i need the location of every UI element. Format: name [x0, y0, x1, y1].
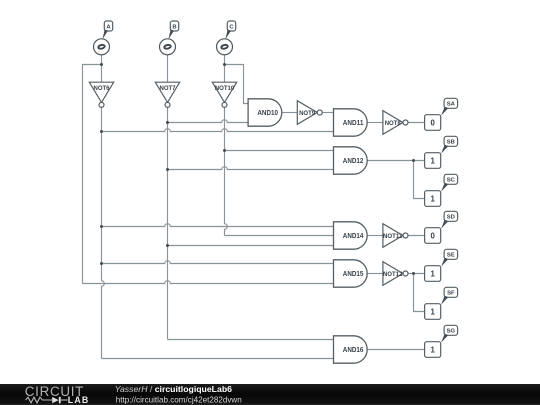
wire NOT9 output to AND11 input 1 — [322, 112, 333, 114]
svg-text:SF: SF — [447, 291, 455, 297]
svg-text:http://circuitlab.com/cj42et28: http://circuitlab.com/cj42et282dvwn — [116, 396, 242, 405]
svg-text:NOT9: NOT9 — [299, 110, 315, 117]
svg-text:1: 1 — [430, 307, 435, 316]
svg-text:C: C — [229, 24, 234, 30]
and-gate AND11 — [334, 109, 368, 136]
and-gate AND15 — [334, 260, 368, 287]
and-gate AND16 — [334, 336, 368, 363]
junction NOT10 / AND12 — [223, 149, 226, 152]
and-gate AND12 — [334, 147, 368, 174]
svg-text:AND15: AND15 — [343, 269, 364, 278]
junction NOT7 / AND12 — [166, 168, 169, 171]
indicator SA — [425, 115, 441, 131]
wire NOT10 column to AND14 input 2 — [225, 235, 334, 237]
indicator SB — [425, 153, 441, 169]
svg-text:AND11: AND11 — [343, 118, 364, 127]
wire NOT6 output column — [102, 107, 105, 358]
inverter NOT7 — [155, 82, 179, 102]
input source C — [217, 39, 233, 55]
svg-text:1: 1 — [430, 269, 435, 278]
indicator SG — [425, 342, 441, 358]
wire NOT10 to AND12 input 1 — [225, 150, 334, 152]
svg-text:0: 0 — [430, 231, 435, 240]
svg-text:B: B — [172, 24, 176, 30]
svg-text:NOT12: NOT12 — [383, 271, 403, 278]
footer bar — [0, 384, 540, 405]
wire NOT6 to AND15 input 1 — [102, 261, 334, 264]
and-gate AND10 — [248, 99, 282, 126]
junction SE branch — [412, 272, 415, 275]
junction NOT7 / AND10 — [166, 121, 169, 124]
flag SC — [444, 174, 458, 184]
wire NOT6 to AND14 input 1 — [102, 224, 334, 227]
flag SG — [444, 325, 458, 335]
wire NOT7 column to AND16 input 1 — [168, 339, 334, 341]
indicator SF — [425, 304, 441, 320]
flag A — [104, 21, 112, 31]
wire AND10 output to NOT9 — [282, 112, 298, 114]
svg-text:LAB: LAB — [68, 395, 90, 405]
flag SD — [444, 211, 458, 221]
input source A — [94, 39, 110, 55]
svg-text:AND12: AND12 — [343, 156, 364, 165]
wire node A to AND15 input 2 — [83, 281, 334, 284]
svg-text:0: 0 — [430, 118, 435, 127]
svg-text:SA: SA — [447, 102, 456, 108]
flag SA — [444, 98, 458, 108]
inverter NOT9 — [297, 101, 317, 125]
wire NOT6 column to AND16 input 2 — [102, 358, 334, 360]
wire branch to box SC — [414, 161, 425, 199]
wire NOT12 output to box SE — [408, 273, 424, 275]
junction node C — [223, 63, 226, 66]
junction NOT6 / AND15 — [100, 262, 103, 265]
inverter NOT11 — [383, 224, 403, 248]
inverter NOT6 — [89, 82, 113, 102]
wire branch to box SF — [414, 274, 425, 312]
wire input B to NOT7 — [167, 55, 169, 82]
flag B — [170, 21, 178, 31]
svg-text:NOT10: NOT10 — [215, 85, 235, 92]
wire input C to NOT10 — [224, 55, 226, 82]
wire NOT8 output to box SA — [408, 122, 424, 124]
flag C — [227, 21, 235, 31]
flag SE — [444, 249, 458, 259]
wire NOT7 to AND12 input 2 — [168, 167, 334, 170]
wire NOT6 to AND11 input 2 — [102, 129, 334, 132]
and-gate AND14 — [334, 222, 368, 249]
junction NOT7 / AND14 — [166, 244, 169, 247]
wire NOT7 to AND10 input 2 — [168, 120, 249, 123]
junction NOT6 / AND11 — [100, 130, 103, 133]
svg-text:NOT11: NOT11 — [383, 233, 403, 240]
svg-text:YasserH / circuitlogiqueLab6: YasserH / circuitlogiqueLab6 — [115, 384, 232, 394]
wire node C branch to AND10 input 1 — [225, 65, 249, 104]
wire input A to NOT6 — [101, 55, 103, 82]
junction node A — [100, 63, 103, 66]
wire AND12 output to box SB — [367, 160, 424, 162]
wire AND11 output to NOT8 — [367, 122, 383, 124]
svg-text:SG: SG — [447, 329, 456, 335]
svg-text:NOT8: NOT8 — [385, 120, 401, 127]
wire AND15 output to NOT12 — [367, 273, 383, 275]
inverter NOT12 — [383, 262, 403, 286]
inverter NOT10 — [212, 82, 236, 102]
svg-text:NOT6: NOT6 — [94, 85, 110, 92]
wire node A branch left — [83, 65, 102, 284]
svg-text:SE: SE — [447, 253, 455, 259]
svg-text:SD: SD — [447, 215, 455, 221]
svg-text:NOT7: NOT7 — [160, 85, 176, 92]
wire NOT7 output column — [167, 107, 169, 339]
svg-text:A: A — [106, 24, 111, 30]
svg-text:1: 1 — [430, 345, 435, 354]
junction SB branch — [412, 159, 415, 162]
wire AND16 output to box SG — [367, 349, 424, 351]
flag SB — [444, 136, 458, 146]
svg-text:AND14: AND14 — [343, 231, 364, 240]
input source B — [160, 39, 176, 55]
svg-text:1: 1 — [430, 156, 435, 165]
inverter NOT8 — [383, 111, 403, 135]
svg-text:AND10: AND10 — [257, 108, 278, 117]
logo resistor symbol — [26, 397, 53, 403]
svg-text:AND16: AND16 — [343, 345, 364, 354]
svg-text:SB: SB — [447, 140, 455, 146]
svg-text:1: 1 — [430, 194, 435, 203]
logo diode symbol — [52, 397, 58, 403]
wire AND14 output to NOT11 — [367, 235, 383, 237]
indicator SC — [425, 191, 441, 207]
indicator SD — [425, 228, 441, 244]
wire NOT7 to AND14 input 3 — [168, 245, 334, 247]
svg-text:SC: SC — [447, 178, 456, 184]
junction NOT6 / AND14 — [100, 225, 103, 228]
wire NOT11 output to box SD — [408, 235, 424, 237]
wire NOT10 output column — [225, 107, 228, 235]
indicator SE — [425, 266, 441, 282]
flag SF — [444, 287, 458, 297]
